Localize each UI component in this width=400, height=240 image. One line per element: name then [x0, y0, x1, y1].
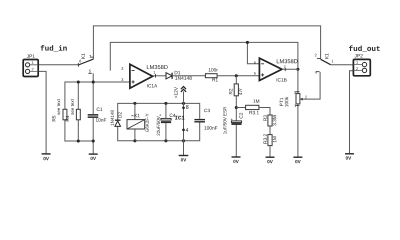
pin 7 [284, 66, 286, 69]
pin 6 [79, 60, 81, 63]
switch K1 left arm [78, 57, 93, 73]
wire JP2 pin2 to ground [350, 71, 354, 154]
gnd 0V R3.2 [267, 160, 272, 163]
op-amp IC1B [259, 58, 282, 80]
wire node B to R3.1 [236, 107, 245, 109]
pin 2 K1 right [315, 54, 317, 57]
gnd 0V PT1 [295, 160, 300, 163]
wire IC1B output [282, 68, 298, 70]
label D2 [118, 112, 121, 118]
wire IC1B pin6 branch [247, 42, 259, 63]
label K1 left [81, 53, 84, 58]
wire D1 to R1 [172, 75, 205, 77]
label JP1 [27, 54, 35, 57]
value 100r [209, 68, 218, 71]
gnd 0V JP1 [43, 157, 48, 160]
wire R3.1 to R3 [259, 108, 270, 116]
junction feedback pin6 [246, 41, 249, 44]
resistor R5 [63, 109, 67, 120]
value 1N4148 D2 [111, 110, 114, 125]
wire R1 to IC1B pin5 [217, 75, 259, 77]
junction R4 rail [77, 80, 80, 83]
value 1uF/50V ESR [223, 107, 226, 134]
pin 1 [153, 71, 155, 74]
pin 1 PT1 [294, 104, 296, 107]
relay coil K1 [134, 103, 136, 140]
pin 1 K1 right [332, 60, 334, 63]
connector JP2 [353, 59, 370, 75]
supply +12V arrow [181, 87, 186, 92]
label R2 [229, 89, 232, 95]
value see text R5 [57, 99, 60, 115]
resistor R2 [234, 84, 238, 96]
potentiometer PT1 [296, 94, 300, 104]
pin 3 PT1 [294, 91, 296, 94]
wire +12V to IC1 to ground [183, 92, 185, 156]
pin 1 JP1 [32, 61, 34, 64]
ground C1 rail [89, 153, 98, 155]
plus C4 [159, 114, 161, 116]
pin 3 [121, 78, 123, 81]
wire K1 right to JP2 [331, 64, 354, 66]
ground R3.2 [266, 156, 275, 158]
label R4 [66, 116, 69, 122]
wire JP1 pin2 to ground [38, 71, 46, 153]
wire PT1 wiper to K1 pin4 [303, 72, 321, 99]
resistor R3.1 [246, 105, 259, 109]
ground IC1 [179, 155, 189, 157]
pin 8 IC1 [186, 105, 189, 109]
label C1 [97, 108, 103, 111]
diode D1 [166, 73, 172, 79]
label R3 [263, 115, 266, 121]
label fud_in [41, 45, 67, 51]
junction IC1B output [296, 68, 299, 71]
value 1N4148 [175, 76, 192, 79]
ground JP2 [345, 153, 354, 155]
relay net top rail [118, 103, 200, 120]
value 100nF [204, 126, 217, 129]
node A [235, 74, 238, 77]
wire left bottom rail [65, 118, 93, 154]
wire R2 chain [235, 76, 237, 157]
pin 4 K1 right [315, 71, 317, 74]
label K1 right [325, 53, 328, 58]
wire R3.2 to ground [269, 146, 271, 157]
label LM358D IC1A [147, 65, 168, 69]
value see text R4 [71, 99, 74, 115]
pin 6 [254, 61, 256, 64]
diode D2 [115, 120, 121, 126]
wire R3 to R3.2 [269, 126, 271, 135]
supply label +12V [174, 87, 177, 98]
label R3.1 [249, 111, 259, 114]
pin 7 [89, 55, 91, 58]
resistor R3 [268, 115, 272, 126]
gnd 0V JP2 [346, 156, 351, 159]
capacitor C1 [88, 114, 99, 118]
pin 5 [89, 70, 91, 73]
value 1M R3.1 [253, 99, 259, 102]
label PT1 [280, 98, 283, 106]
IC1 power pin dots [182, 106, 185, 109]
wire JP1 pin1 to K1 [38, 64, 78, 66]
capacitor C3 [194, 119, 205, 123]
relay net bottom rail [118, 122, 200, 140]
wire C1 top stub [92, 82, 94, 114]
resistor R3.2 [268, 135, 272, 146]
ground C2 [232, 156, 241, 158]
label C3 [204, 109, 210, 112]
ground JP1 [42, 153, 51, 155]
wire top bypass net [93, 26, 320, 59]
label C2 [239, 113, 242, 119]
label D1 [175, 71, 181, 74]
resistor R1 [205, 74, 217, 78]
value 47r [239, 88, 242, 95]
capacitor C2 [231, 121, 241, 125]
label C4 [170, 114, 176, 117]
label IC1A [147, 84, 157, 87]
pin 2 JP2 [356, 67, 358, 70]
pin 1 JP2 [356, 61, 358, 64]
wire R4 top stub [77, 82, 79, 109]
pin 2 [121, 67, 123, 70]
label fud_out [349, 45, 380, 51]
pin 5 [254, 72, 256, 75]
gnd 0V IC1 [181, 158, 186, 161]
junction C1 rail [92, 80, 95, 83]
wire feedback net [110, 42, 298, 70]
value 10nF [96, 118, 106, 121]
label IC1 [175, 116, 184, 120]
op-amp IC1A [130, 64, 153, 88]
value G6K2F-Y [146, 114, 149, 132]
value 100k [285, 97, 289, 107]
value 22uF/50V [157, 116, 160, 135]
value 3.3M [273, 116, 276, 126]
pin 2 JP1 [32, 68, 34, 71]
pin 4 IC1 [186, 128, 189, 132]
label R5 [52, 116, 55, 122]
gnd 0V C2 [233, 160, 238, 163]
label R3.2 [263, 134, 266, 144]
label K1 coil [134, 114, 139, 117]
node B [235, 106, 238, 109]
connector JP1 [23, 60, 38, 77]
wire IC1A pin3 rail [65, 82, 130, 109]
label LM358D IC1B [277, 59, 298, 63]
ground PT1 [293, 156, 302, 158]
wire K1 pin5 down [92, 73, 94, 82]
switch K1 right arm [317, 58, 331, 64]
label IC1B [277, 78, 287, 81]
label JP2 [355, 54, 363, 57]
label R1 [212, 78, 218, 81]
wire IC1B out to PT1 [297, 69, 299, 157]
value 1M R3.2 [273, 136, 276, 142]
gnd 0V C1 [91, 157, 96, 160]
resistor R4 [76, 109, 80, 120]
capacitor C4 [165, 103, 167, 140]
plus C2 [231, 119, 233, 121]
pin 2 wiper [305, 96, 307, 99]
wire IC1A output [153, 75, 166, 77]
